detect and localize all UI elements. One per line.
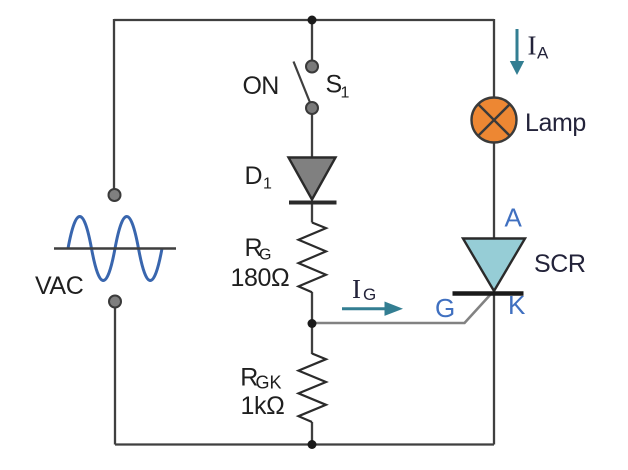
source VAC sine [68, 217, 162, 281]
diode D1 cathode bar [289, 201, 337, 205]
svg-text:Lamp: Lamp [525, 109, 586, 137]
lamp circle [472, 98, 517, 143]
resistor RG zigzag [299, 223, 327, 293]
svg-text:G: G [435, 293, 455, 323]
svg-text:K: K [508, 290, 526, 320]
node junction top [308, 16, 317, 25]
svg-text:D: D [245, 162, 263, 190]
current IG arrow [342, 307, 387, 310]
svg-text:I: I [352, 274, 361, 304]
wire left vertical lower [114, 302, 116, 445]
lamp X [478, 104, 510, 136]
wire left vertical upper [113, 19, 115, 190]
svg-text:GK: GK [256, 373, 282, 393]
wire bottom horizontal [115, 443, 494, 445]
svg-text:1: 1 [263, 176, 272, 193]
terminal VAC top [109, 189, 121, 201]
svg-text:I: I [528, 31, 537, 61]
wire top horizontal [114, 19, 494, 21]
svg-text:VAC: VAC [35, 272, 84, 300]
node junction bottom [308, 440, 317, 449]
terminal VAC bottom [109, 296, 121, 308]
diode D1 triangle [289, 158, 336, 200]
SCR triangle [463, 239, 525, 292]
svg-text:1: 1 [341, 85, 350, 102]
svg-text:A: A [505, 203, 523, 233]
svg-text:180Ω: 180Ω [231, 264, 290, 292]
svg-text:ON: ON [243, 72, 279, 100]
wire gate (gray) [312, 295, 491, 324]
wire right vertical segments [493, 19, 495, 98]
svg-text:G: G [259, 247, 271, 264]
resistor RGK zigzag [299, 354, 327, 423]
svg-text:SCR: SCR [534, 250, 586, 278]
source VAC bar [54, 247, 176, 249]
svg-text:G: G [363, 285, 376, 304]
wire middle branch segments [311, 20, 313, 62]
SCR cathode bar [453, 291, 524, 296]
node junction gate [308, 319, 317, 328]
switch S1 blade [294, 62, 312, 106]
svg-text:A: A [537, 44, 549, 63]
switch S1 terminal bottom [306, 102, 318, 114]
switch S1 terminal top [306, 61, 318, 73]
current IA arrow [516, 29, 519, 63]
svg-text:1kΩ: 1kΩ [241, 392, 285, 420]
